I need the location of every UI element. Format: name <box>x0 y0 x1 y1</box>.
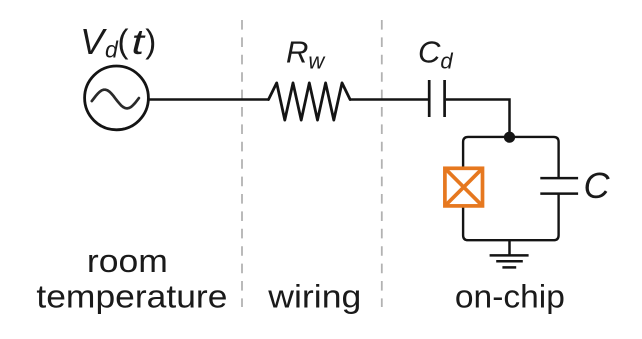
loop upper path (top edge with rounded corners, left edge to junction, right edge to cap plate) <box>463 137 558 178</box>
capacitor C top plate <box>540 177 578 180</box>
loop lower path (bottom edge with rounded corners) <box>463 194 558 240</box>
capacitor C_d right plate <box>443 80 446 117</box>
boundary dashed line (room temperature | wiring) <box>241 20 243 307</box>
svg-text:(: ( <box>118 22 129 59</box>
wire resistor to capacitor Cd <box>350 98 429 101</box>
ground bar 3 <box>502 266 516 269</box>
node junction dot <box>504 132 515 143</box>
svg-text:t: t <box>132 23 146 62</box>
svg-text:Rw: Rw <box>286 35 326 74</box>
sine symbol inside source <box>92 90 139 109</box>
svg-text:V: V <box>80 21 107 62</box>
svg-text:Cd: Cd <box>418 35 453 74</box>
svg-text:C: C <box>584 165 611 206</box>
wire source to resistor <box>148 98 269 101</box>
ground bar 1 <box>490 254 529 257</box>
capacitor C bottom plate <box>540 192 578 195</box>
svg-text:room: room <box>87 243 168 279</box>
boundary dashed line (wiring | on-chip) <box>381 20 383 307</box>
svg-text:temperature: temperature <box>36 279 227 315</box>
svg-text:on-chip: on-chip <box>455 279 565 315</box>
AC source circle V_d(t) <box>85 66 149 130</box>
ground bar 2 <box>496 260 523 263</box>
svg-text:): ) <box>145 22 156 59</box>
resistor R_w zigzag <box>269 83 351 120</box>
ground stem <box>508 240 511 255</box>
Josephson junction (orange crossed box) <box>445 168 483 206</box>
capacitor C_d left plate <box>428 80 431 117</box>
wire Cd to corner <box>446 100 510 139</box>
svg-text:wiring: wiring <box>267 279 361 315</box>
